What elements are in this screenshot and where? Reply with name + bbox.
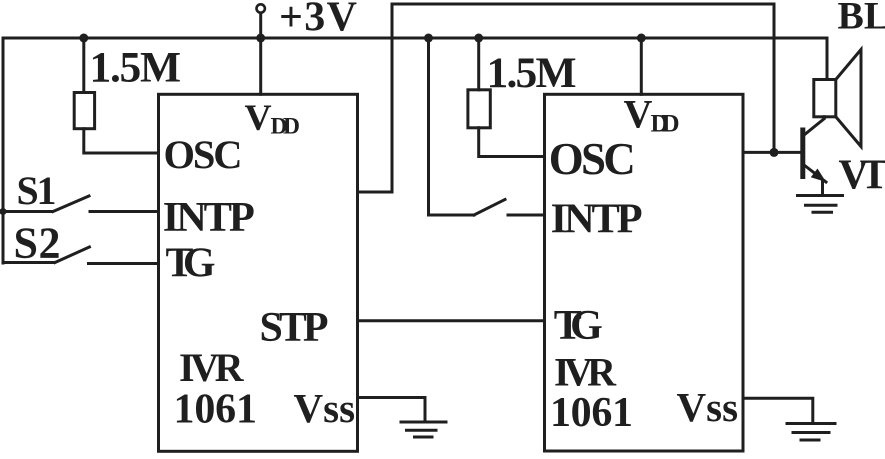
IC U2 IVR1061 body xyxy=(545,94,744,451)
svg-text:TG: TG xyxy=(166,241,216,287)
wire +3V rail xyxy=(3,37,827,40)
node U2 VDD rail junction xyxy=(637,34,646,43)
transistor VT base bar xyxy=(800,130,805,177)
svg-text:S2: S2 xyxy=(14,219,61,268)
svg-text:IVR: IVR xyxy=(554,350,617,395)
svg-text:DD: DD xyxy=(651,110,680,137)
svg-text:INTP: INTP xyxy=(163,194,255,241)
switch S3 right INTP xyxy=(474,200,505,216)
resistor R2 1.5M right drop xyxy=(477,38,480,90)
svg-text:1061: 1061 xyxy=(174,387,258,433)
wire U1 Vss to ground xyxy=(358,398,426,422)
wire right IC output to base node xyxy=(743,151,801,154)
svg-text:V: V xyxy=(624,92,653,137)
svg-text:INTP: INTP xyxy=(551,196,643,243)
node +3V rail junction xyxy=(256,34,265,43)
svg-text:TG: TG xyxy=(554,303,603,349)
node R2 rail junction xyxy=(474,34,483,43)
node R1 rail junction xyxy=(79,34,88,43)
wire R2 to right OSC pin xyxy=(479,128,545,157)
wire top link line xyxy=(392,3,774,6)
svg-text:OSC: OSC xyxy=(549,134,636,184)
node base junction xyxy=(770,148,779,157)
IC U1 IVR1061 body xyxy=(159,94,358,451)
wire +3V terminal drop xyxy=(259,13,262,94)
wire U2 Vss to ground xyxy=(743,398,813,422)
svg-text:BL: BL xyxy=(838,0,885,38)
wire rail to speaker xyxy=(826,38,829,80)
svg-text:Vss: Vss xyxy=(677,384,739,430)
wire R1 to OSC pin xyxy=(84,129,159,153)
svg-text:STP: STP xyxy=(260,305,329,351)
wire rail to right switch xyxy=(429,38,475,215)
ground U1 Vss xyxy=(401,421,446,424)
svg-text:+3V: +3V xyxy=(279,0,357,41)
wire STP to TG link xyxy=(358,319,545,322)
transistor VT collector xyxy=(803,117,825,136)
resistor R1 1.5M body xyxy=(74,93,94,129)
svg-text:Vss: Vss xyxy=(294,385,356,431)
resistor R1 1.5M left drop xyxy=(82,38,85,93)
resistor R2 1.5M body xyxy=(468,90,490,128)
wire emitter to ground xyxy=(821,181,824,196)
node right switch rail junction xyxy=(424,34,433,43)
svg-text:V: V xyxy=(245,98,272,139)
transistor VT emitter xyxy=(803,164,826,182)
svg-text:1.5M: 1.5M xyxy=(90,44,182,92)
svg-text:DD: DD xyxy=(271,114,301,140)
svg-text:1.5M: 1.5M xyxy=(487,49,577,97)
speaker BL horn xyxy=(836,50,861,147)
svg-text:IVR: IVR xyxy=(179,345,245,390)
svg-text:VT: VT xyxy=(839,153,885,199)
speaker BL body xyxy=(814,80,836,117)
terminal +3V circle xyxy=(257,4,265,12)
wire left vertical to switches xyxy=(2,38,5,263)
wire left IC output to top line xyxy=(358,4,393,192)
svg-text:1061: 1061 xyxy=(550,390,633,436)
ground U2 Vss xyxy=(787,422,835,425)
ground VT emitter xyxy=(798,194,843,197)
wire top line down to base node xyxy=(773,4,776,152)
wire rail to U2 VDD xyxy=(640,38,643,94)
svg-text:S1: S1 xyxy=(17,168,57,213)
switch S2 xyxy=(3,261,54,264)
node S1 tap xyxy=(0,208,7,215)
switch S1 xyxy=(3,210,52,213)
transistor VT emitter arrow xyxy=(811,169,826,183)
svg-text:OSC: OSC xyxy=(164,132,243,177)
